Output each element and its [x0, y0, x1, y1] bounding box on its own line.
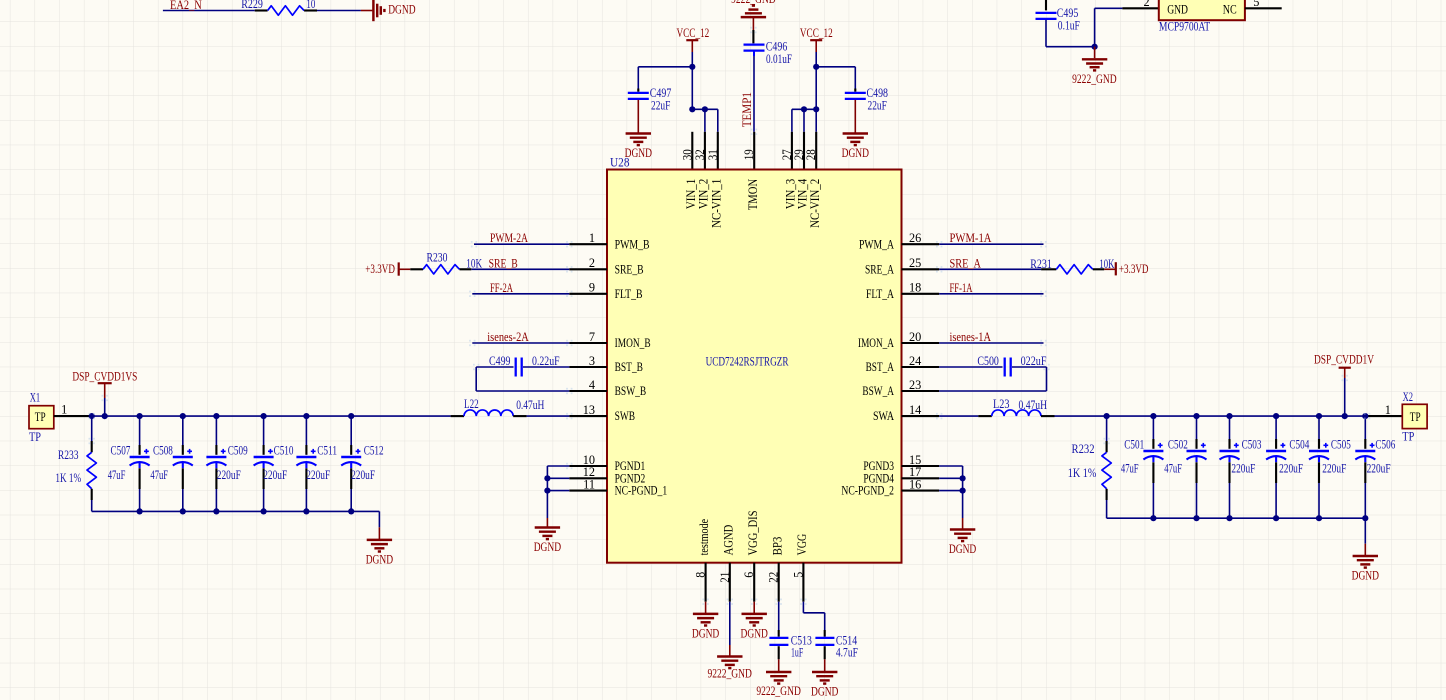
svg-text:FLT_B: FLT_B	[615, 287, 643, 301]
junction	[813, 64, 819, 70]
svg-text:DGND: DGND	[534, 540, 561, 554]
svg-text:C510: C510	[274, 443, 294, 457]
resistor R231	[1030, 257, 1114, 274]
None	[1220, 443, 1240, 462]
svg-text:47uF: 47uF	[1121, 461, 1139, 475]
svg-text:PWM-2A: PWM-2A	[490, 231, 528, 245]
ground lead	[378, 527, 380, 540]
junction	[1193, 515, 1199, 521]
wire	[104, 398, 106, 416]
svg-text:220uF: 220uF	[217, 468, 241, 482]
wire	[1012, 366, 1047, 368]
wire C495 down	[1045, 20, 1047, 47]
ground lead	[729, 645, 731, 656]
capacitor C497	[628, 93, 649, 99]
pin 1 lead of X2	[1367, 415, 1402, 417]
svg-text:+3.3VD: +3.3VD	[1119, 262, 1149, 276]
wire to MCP pin 2	[1095, 7, 1123, 9]
svg-text:DSP_CVDD1V: DSP_CVDD1V	[1314, 353, 1374, 367]
junction	[1150, 515, 1156, 521]
pin 32 lead	[704, 132, 706, 170]
junction	[1316, 515, 1322, 521]
None	[173, 449, 193, 468]
svg-text:X1: X1	[30, 391, 40, 405]
svg-text:DGND: DGND	[842, 146, 869, 160]
svg-text:VIN_2: VIN_2	[697, 179, 711, 209]
None	[1143, 443, 1163, 462]
wire down	[1364, 518, 1366, 544]
wire down to C497	[637, 67, 639, 89]
svg-text:TEMP1: TEMP1	[740, 92, 754, 127]
svg-text:SRE_B: SRE_B	[615, 262, 644, 276]
capacitor C502	[1164, 416, 1206, 518]
pin 24 lead	[902, 366, 940, 368]
ground DGND (right-facing)	[373, 0, 384, 21]
junction	[1104, 413, 1110, 419]
pin 31 lead	[717, 132, 719, 170]
svg-text:TP: TP	[35, 410, 46, 424]
svg-text:2: 2	[1143, 0, 1149, 9]
svg-text:R233: R233	[58, 448, 79, 462]
junction	[89, 413, 95, 419]
capacitor C506	[1355, 416, 1395, 518]
svg-text:9: 9	[589, 281, 595, 295]
svg-text:R232: R232	[1072, 442, 1095, 456]
svg-text:C509: C509	[228, 443, 248, 457]
ground DGND (PGND right)	[949, 530, 976, 557]
wire	[704, 109, 706, 132]
ground DGND (C514)	[811, 672, 838, 699]
svg-text:1: 1	[61, 402, 67, 416]
svg-text:NC-VIN_1: NC-VIN_1	[709, 179, 723, 228]
wire SWA	[939, 415, 978, 417]
pin 12 lead	[569, 477, 607, 479]
svg-text:PWM-1A: PWM-1A	[950, 231, 992, 245]
svg-text:PWM_B: PWM_B	[615, 237, 650, 251]
junction	[1226, 515, 1232, 521]
svg-text:1K 1%: 1K 1%	[1068, 466, 1097, 480]
ground lead	[1094, 47, 1096, 59]
svg-text:FLT_A: FLT_A	[866, 287, 894, 301]
capacitor C504	[1266, 416, 1309, 518]
junction	[137, 413, 143, 419]
svg-text:C504: C504	[1289, 437, 1309, 451]
wire down	[475, 367, 477, 391]
wires VIN group left	[692, 108, 718, 110]
wire BSW_A	[939, 390, 1046, 392]
wire BSW_B	[476, 390, 569, 392]
capacitor C498	[845, 93, 866, 99]
None	[1187, 443, 1207, 462]
svg-text:22uF: 22uF	[868, 98, 888, 112]
ground DGND (PGND left)	[534, 528, 561, 555]
junction	[102, 413, 108, 419]
pin 15 lead	[902, 465, 940, 467]
wire down	[1046, 367, 1048, 391]
cap lead	[753, 52, 755, 57]
ground lead	[962, 518, 964, 529]
ground lead	[637, 100, 639, 134]
ground lead	[546, 518, 548, 527]
None	[254, 449, 274, 468]
None	[206, 449, 226, 468]
svg-text:9222_GND: 9222_GND	[707, 667, 752, 681]
wire	[802, 602, 804, 613]
pin 9 lead	[569, 293, 607, 295]
wire BST_B	[523, 366, 569, 368]
svg-text:23: 23	[909, 378, 921, 392]
svg-text:NC-VIN_2: NC-VIN_2	[808, 179, 822, 228]
ground DGND (left bank)	[366, 540, 393, 567]
svg-text:220uF: 220uF	[1367, 461, 1391, 475]
pin 6 VGG_DIS to DGND	[753, 563, 755, 602]
svg-text:022uF: 022uF	[1021, 354, 1047, 368]
svg-text:47uF: 47uF	[150, 468, 168, 482]
svg-text:220uF: 220uF	[263, 468, 287, 482]
power +3.3VD (left)	[365, 262, 410, 276]
svg-text:VGG_DIS: VGG_DIS	[746, 510, 760, 555]
svg-text:C507: C507	[111, 443, 131, 457]
wire to DGND	[317, 10, 361, 12]
svg-text:5: 5	[1253, 0, 1259, 9]
pin 10 lead	[569, 465, 607, 467]
pin 16 lead	[902, 490, 940, 492]
None	[1266, 443, 1286, 462]
svg-text:1uF: 1uF	[791, 645, 803, 659]
power port VCC_12 (right)	[800, 26, 833, 52]
pin lead C495 top	[1045, 0, 1047, 10]
junction	[1362, 515, 1368, 521]
svg-text:6: 6	[742, 572, 756, 578]
wire PGND group right	[939, 465, 962, 467]
pin 11 lead	[569, 490, 607, 492]
svg-text:GND: GND	[1167, 3, 1188, 17]
wire	[778, 602, 780, 630]
test point X2	[1402, 390, 1427, 443]
junction	[213, 413, 219, 419]
junction	[1226, 413, 1232, 419]
wire SRE_B	[471, 268, 569, 270]
junction	[180, 508, 186, 514]
pin 4 lead	[569, 390, 607, 392]
inductor L23	[978, 397, 1054, 416]
junction	[1092, 44, 1098, 50]
wire to junction	[1046, 46, 1095, 48]
pin lead	[778, 646, 780, 659]
svg-text:C501: C501	[1124, 437, 1144, 451]
svg-text:DGND: DGND	[366, 552, 393, 566]
junction	[1342, 413, 1348, 419]
wire	[1344, 378, 1346, 416]
pin 3 lead	[569, 366, 607, 368]
svg-text:NC-PGND_2: NC-PGND_2	[841, 484, 894, 498]
svg-text:DGND: DGND	[692, 626, 719, 640]
wire ground rail (left bank)	[92, 510, 380, 512]
svg-text:TP: TP	[1402, 429, 1414, 443]
svg-text:16: 16	[909, 477, 921, 491]
wire VCC_12 down	[815, 52, 817, 109]
svg-text:testmode: testmode	[697, 518, 711, 555]
resistor R230	[410, 251, 482, 274]
ground 9222_GND inverted	[741, 6, 766, 18]
inductor L22	[451, 397, 545, 416]
svg-text:L22: L22	[464, 397, 479, 411]
pin lead	[824, 630, 826, 637]
svg-text:SRE_A: SRE_A	[950, 256, 982, 270]
svg-text:DGND: DGND	[1352, 569, 1379, 583]
capacitor C500	[977, 354, 1046, 377]
capacitor C513	[769, 633, 812, 659]
svg-text:22: 22	[767, 572, 781, 583]
junction	[348, 413, 354, 419]
wire	[717, 109, 719, 132]
svg-text:5: 5	[791, 572, 805, 578]
svg-text:21: 21	[718, 572, 732, 583]
pin lead	[778, 630, 780, 637]
svg-text:FF-2A: FF-2A	[490, 281, 513, 295]
wire	[729, 602, 731, 645]
wire SWA rail	[1055, 415, 1368, 417]
svg-text:32: 32	[693, 149, 707, 160]
svg-text:220uF: 220uF	[1322, 461, 1346, 475]
junction	[960, 475, 966, 481]
svg-text:BSW_A: BSW_A	[862, 384, 894, 398]
junction	[303, 413, 309, 419]
junction	[1362, 413, 1368, 419]
svg-text:SWA: SWA	[873, 409, 894, 423]
junction	[1193, 413, 1199, 419]
capacitor C514	[815, 633, 858, 659]
None	[992, 410, 1041, 416]
svg-text:NC: NC	[1223, 3, 1237, 17]
ground lead	[854, 100, 856, 134]
svg-text:13: 13	[583, 403, 595, 417]
wire PWM-2A	[474, 243, 569, 245]
svg-text:DGND: DGND	[388, 3, 415, 17]
ground 9222_GND (C513)	[756, 672, 801, 698]
None	[130, 449, 150, 468]
svg-text:C502: C502	[1168, 437, 1188, 451]
svg-text:VCC_12: VCC_12	[677, 26, 710, 40]
svg-text:R229: R229	[241, 0, 263, 11]
junction	[1150, 413, 1156, 419]
pin 28 lead	[815, 132, 817, 170]
pin 20 lead	[902, 342, 940, 344]
svg-text:20: 20	[909, 330, 921, 344]
svg-text:8: 8	[694, 572, 708, 578]
svg-text:SRE_A: SRE_A	[865, 262, 894, 276]
svg-text:0.22uF: 0.22uF	[532, 354, 560, 368]
svg-text:0.01uF: 0.01uF	[766, 52, 792, 66]
svg-text:NC-PGND_1: NC-PGND_1	[615, 484, 668, 498]
svg-text:9222_GND: 9222_GND	[1072, 72, 1117, 86]
wire	[824, 613, 826, 630]
svg-text:C500: C500	[977, 354, 999, 368]
wire down	[378, 511, 380, 527]
junction	[1273, 413, 1279, 419]
ground lead	[778, 659, 780, 672]
svg-text:X2: X2	[1403, 390, 1413, 404]
svg-text:220uF: 220uF	[306, 468, 330, 482]
wire TEMP1	[753, 56, 755, 132]
svg-text:25: 25	[909, 256, 921, 270]
junction	[1316, 413, 1322, 419]
ground DGND (testmode)	[692, 614, 719, 641]
junction	[960, 488, 966, 494]
wire isenes-1A	[939, 342, 1043, 344]
svg-text:220uF: 220uF	[1279, 461, 1303, 475]
svg-text:R231: R231	[1030, 257, 1052, 271]
svg-text:U28: U28	[610, 155, 630, 169]
wire FF-2A	[472, 293, 569, 295]
junction	[213, 508, 219, 514]
svg-text:UCD7242RSJTRGZR: UCD7242RSJTRGZR	[706, 355, 789, 369]
capacitor C507	[108, 416, 150, 511]
capacitor C505	[1309, 416, 1351, 518]
capacitor C508	[150, 416, 192, 511]
svg-text:26: 26	[909, 231, 921, 245]
None	[341, 449, 361, 468]
pin 5 VGG to C514	[802, 563, 804, 602]
svg-text:VGG: VGG	[795, 534, 809, 556]
pin 29 lead	[803, 132, 805, 170]
junction	[689, 106, 695, 112]
svg-text:FF-1A: FF-1A	[950, 281, 973, 295]
svg-text:AGND: AGND	[721, 525, 735, 556]
capacitor C499 plates	[516, 358, 522, 377]
junction	[137, 508, 143, 514]
junction	[1273, 515, 1279, 521]
svg-text:4.7uF: 4.7uF	[836, 645, 858, 659]
ground lead	[753, 602, 755, 614]
junction	[689, 64, 695, 70]
wire PWM-1A	[939, 243, 1043, 245]
pin 18 lead	[902, 293, 940, 295]
resistor R232	[1068, 416, 1112, 518]
pin 17 lead	[902, 477, 940, 479]
svg-text:31: 31	[706, 149, 720, 160]
svg-text:BSW_B: BSW_B	[615, 384, 647, 398]
None	[1355, 443, 1375, 462]
wire isenes-2A	[472, 342, 569, 344]
capacitor C503	[1220, 416, 1262, 518]
power port VCC_12 (left)	[677, 26, 710, 52]
wire to C498	[816, 66, 855, 68]
capacitor C500 plates	[1005, 358, 1011, 377]
None	[1309, 443, 1329, 462]
power +3.3VD (right)	[1104, 262, 1148, 276]
svg-text:SRE_B: SRE_B	[489, 256, 518, 270]
svg-text:TP: TP	[29, 430, 41, 444]
ground lead	[752, 17, 754, 30]
None	[464, 410, 513, 416]
svg-text:C506: C506	[1375, 437, 1395, 451]
svg-text:isenes-1A: isenes-1A	[950, 330, 992, 344]
test point X1	[29, 391, 54, 444]
svg-text:SWB: SWB	[615, 409, 636, 423]
svg-text:C505: C505	[1331, 437, 1351, 451]
junction	[348, 508, 354, 514]
svg-text:C512: C512	[364, 443, 384, 457]
pin 5 lead	[1245, 7, 1282, 9]
capacitor C499	[489, 354, 560, 377]
svg-text:9222_GND: 9222_GND	[756, 684, 801, 698]
junction	[544, 475, 550, 481]
capacitor C496	[744, 45, 765, 51]
svg-text:1: 1	[589, 231, 595, 245]
wires VIN group right	[792, 108, 816, 110]
ground lead	[705, 602, 707, 614]
svg-text:IMON_B: IMON_B	[615, 336, 651, 350]
svg-text:IMON_A: IMON_A	[858, 336, 894, 350]
svg-text:28: 28	[804, 149, 818, 160]
svg-text:L23: L23	[993, 397, 1010, 411]
junction	[801, 106, 807, 112]
svg-text:11: 11	[583, 477, 595, 491]
capacitor C512	[341, 416, 383, 511]
capacitor C501	[1121, 416, 1164, 518]
svg-text:TP: TP	[1410, 410, 1421, 424]
power port DSP_CVDD1VS	[72, 370, 137, 398]
svg-text:C503: C503	[1242, 437, 1262, 451]
svg-text:C499: C499	[489, 354, 511, 368]
pin 14 lead	[902, 415, 940, 417]
capacitor C509	[206, 416, 247, 511]
capacitor C510	[254, 416, 294, 511]
svg-text:4: 4	[589, 378, 595, 392]
svg-text:7: 7	[589, 330, 595, 344]
svg-text:0.47uH: 0.47uH	[1019, 398, 1048, 412]
ground lead	[1364, 544, 1366, 556]
ground 9222_GND (AGND)	[707, 657, 752, 681]
resistor R229	[241, 0, 317, 15]
svg-text:DGND: DGND	[741, 626, 768, 640]
junction	[261, 508, 267, 514]
wire ground rail (right bank)	[1107, 517, 1366, 519]
pin 2 lead	[1122, 7, 1158, 9]
wire to C497	[638, 66, 692, 68]
pin 25 lead	[902, 268, 940, 270]
pin 30 lead	[691, 132, 693, 170]
pin 2 lead	[569, 268, 607, 270]
pin 1 lead of X1	[54, 415, 92, 417]
wire VCC_12 down	[691, 52, 693, 109]
resistor R233	[55, 416, 96, 511]
wire BST_A	[939, 366, 1002, 368]
junction	[702, 106, 708, 112]
svg-text:isenes-2A: isenes-2A	[487, 330, 529, 344]
svg-text:3: 3	[589, 354, 595, 368]
wire down to C498	[854, 67, 856, 89]
junction	[180, 413, 186, 419]
pin 19 lead	[753, 132, 755, 170]
pin lead C496	[752, 30, 754, 43]
pin 8 testmode to DGND	[705, 563, 707, 602]
ground 9222_GND	[1072, 59, 1117, 86]
svg-text:47uF: 47uF	[1164, 461, 1182, 475]
svg-text:10: 10	[306, 0, 315, 11]
pin 1 lead	[569, 243, 607, 245]
svg-text:2: 2	[589, 256, 595, 270]
svg-text:1: 1	[1385, 403, 1391, 417]
wire EA2_N net	[163, 10, 255, 12]
svg-text:C508: C508	[153, 443, 173, 457]
svg-text:MCP9700AT: MCP9700AT	[1159, 20, 1211, 34]
svg-text:19: 19	[742, 149, 756, 160]
junction	[544, 488, 550, 494]
wire SWB rail	[92, 415, 451, 417]
wire	[791, 109, 793, 132]
